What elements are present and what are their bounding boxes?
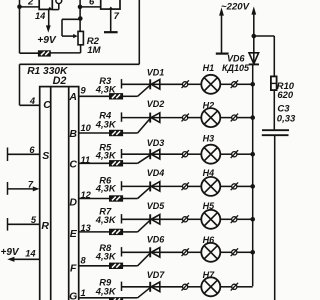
wire feedback from top right down to left rail xyxy=(20,0,140,105)
wire R10 to C3 xyxy=(273,90,275,129)
C input label xyxy=(43,99,51,111)
wire bus VD6 cathode down to lamps xyxy=(252,64,254,286)
node bus junction row D xyxy=(250,184,255,189)
node bus junction row B xyxy=(250,115,255,120)
lamp H5 xyxy=(201,210,220,229)
svg-text:+9V: +9V xyxy=(37,35,57,46)
svg-text:S: S xyxy=(42,150,49,162)
H2 label xyxy=(203,101,215,111)
wire diagonal R3 to VD1 xyxy=(138,85,150,96)
terminal tick row D xyxy=(121,181,123,190)
pin 7 label xyxy=(114,11,120,22)
svg-text:620: 620 xyxy=(277,89,293,100)
pin 14 label xyxy=(35,11,46,21)
R10 label xyxy=(277,80,295,91)
R6 value 4,3K xyxy=(95,182,117,193)
terminal tick row F xyxy=(121,247,123,256)
node junction at gate D1.1 input xyxy=(17,4,22,9)
pin 6 wire xyxy=(8,153,40,155)
output A label xyxy=(68,91,77,103)
svg-text:КД105: КД105 xyxy=(222,63,250,73)
output G label xyxy=(69,291,77,300)
VD1 label xyxy=(147,67,165,77)
svg-text:4,3K: 4,3K xyxy=(95,149,117,160)
wire C3 bottom lead xyxy=(274,136,276,300)
wire after R6 xyxy=(123,198,138,200)
wire lamp H7 to contact xyxy=(220,286,232,288)
wire R1 left lead xyxy=(20,52,39,54)
connector contact right row A xyxy=(231,80,238,88)
svg-text:7: 7 xyxy=(28,179,34,189)
diode VD2 xyxy=(150,113,160,123)
wire contact to lamp H5 xyxy=(188,218,202,220)
pin 5 label xyxy=(31,215,37,225)
svg-text:14: 14 xyxy=(35,11,46,21)
wire diagonal R5 to VD3 xyxy=(138,155,150,163)
R9 label xyxy=(99,277,112,288)
D2 designator label xyxy=(53,75,67,87)
C3 label xyxy=(277,104,290,115)
svg-text:G: G xyxy=(69,291,77,300)
pin 13 wire row E xyxy=(79,231,110,233)
connector contact left row A xyxy=(182,80,189,88)
wire contact to bus row E xyxy=(237,218,253,220)
pin 11 label row C xyxy=(81,155,91,165)
C3 value 0,33 xyxy=(277,114,296,125)
pin 7 arrow into gate xyxy=(109,7,113,32)
node junction to R2 wiper loop xyxy=(78,16,83,21)
resistor R8 xyxy=(110,263,123,268)
H4 label xyxy=(203,168,215,178)
common terminal bar mains xyxy=(216,52,229,54)
svg-text:5: 5 xyxy=(31,215,37,225)
node bus junction row A xyxy=(250,82,255,87)
node bus junction row C xyxy=(250,152,255,157)
+9V supply label left xyxy=(1,247,20,258)
~220V label xyxy=(221,2,251,13)
connector contact left row D xyxy=(182,182,189,190)
pin 8 wire row F xyxy=(79,265,110,267)
terminal tick row E xyxy=(121,214,123,223)
wire contact to bus row F xyxy=(237,251,253,253)
pin 1 wire row G xyxy=(79,297,110,299)
wire gate D1.1 input xyxy=(20,6,40,8)
svg-text:14: 14 xyxy=(25,248,36,258)
svg-text:VD6: VD6 xyxy=(147,234,166,244)
diode VD1 xyxy=(150,79,160,89)
svg-text:R: R xyxy=(41,220,49,232)
svg-text:10: 10 xyxy=(81,123,92,133)
pin 7 wire with arrow xyxy=(8,186,40,191)
pin 14 wire with +9V arrow xyxy=(7,257,39,262)
R7 label xyxy=(99,206,112,217)
H5 label xyxy=(203,201,215,211)
terminal circle output of gate U1a xyxy=(52,0,61,10)
R4 value 4,3K xyxy=(95,119,117,130)
R9 value 4,3K xyxy=(95,285,117,296)
svg-text:13: 13 xyxy=(81,223,92,233)
lamp H4 xyxy=(201,177,220,196)
svg-text:H1: H1 xyxy=(203,63,215,73)
svg-text:VD2: VD2 xyxy=(147,99,165,109)
output F label xyxy=(70,263,77,275)
resistor R2 (trimmer body) xyxy=(78,31,83,44)
svg-text:4,3K: 4,3K xyxy=(95,119,117,130)
wire middle vertical rail (gate output net) xyxy=(79,0,81,31)
wire lamp H2 to contact xyxy=(220,117,232,119)
wire terminal through VD3 to contact xyxy=(122,153,183,155)
R5 label xyxy=(99,142,112,153)
H3 label xyxy=(203,134,215,144)
VD6 type КД105 xyxy=(222,63,250,73)
svg-text:4,3K: 4,3K xyxy=(95,251,117,262)
svg-text:C: C xyxy=(69,159,77,171)
wire contact to bus row C xyxy=(237,153,253,155)
svg-text:VD4: VD4 xyxy=(147,168,165,178)
R2 label xyxy=(87,36,100,47)
pin 4 label xyxy=(29,96,36,106)
S input label xyxy=(42,150,49,162)
VD6 label xyxy=(227,54,246,64)
wire branch to R10 xyxy=(254,36,274,76)
node junction VD6 anode branch xyxy=(252,34,257,39)
capacitor C3 xyxy=(262,130,289,135)
pin 9 wire row A xyxy=(79,95,110,97)
connector contact left row E xyxy=(182,215,189,223)
svg-text:+9V: +9V xyxy=(1,247,20,258)
pin 10 label row B xyxy=(81,123,92,133)
svg-text:6: 6 xyxy=(89,0,95,7)
lamp H1 xyxy=(201,75,220,94)
terminal tick row B xyxy=(121,112,123,121)
svg-text:6: 6 xyxy=(29,145,35,155)
R6 label xyxy=(99,174,112,185)
resistor R4 xyxy=(110,130,123,135)
svg-text:H7: H7 xyxy=(203,270,215,280)
connector contact right row G xyxy=(231,283,238,291)
connector contact left row G xyxy=(182,283,189,291)
lamp H2 xyxy=(201,108,220,127)
connector contact right row F xyxy=(231,248,238,256)
wire after R7 xyxy=(123,231,138,233)
R10 value 620 xyxy=(277,89,293,100)
output E label xyxy=(70,228,78,240)
wire contact to bus row A xyxy=(237,83,253,85)
wire lamp H1 to contact xyxy=(220,83,232,85)
node bus junction row E xyxy=(250,217,255,222)
resistor R9 xyxy=(110,298,123,300)
pin 13 label row E xyxy=(81,223,92,233)
svg-text:2: 2 xyxy=(27,0,34,8)
output D label xyxy=(69,197,77,209)
wire lamp H5 to contact xyxy=(220,218,232,220)
svg-text:F: F xyxy=(70,263,77,275)
R8 value 4,3K xyxy=(95,251,117,262)
gate U1a box (cut off at top) xyxy=(39,0,52,9)
wire after R4 xyxy=(123,132,138,134)
VD4 label xyxy=(147,168,165,178)
resistor R1 xyxy=(38,51,50,56)
svg-text:4,3K: 4,3K xyxy=(95,285,117,296)
wire contact to lamp H6 xyxy=(188,251,202,253)
connector contact right row D xyxy=(231,182,238,190)
pin 12 label row D xyxy=(81,190,92,200)
pin 1 label row G xyxy=(81,288,86,298)
wire contact to lamp H7 xyxy=(188,286,202,288)
common terminal bar xyxy=(104,31,118,33)
pin 11 wire row C xyxy=(79,162,110,164)
+9V label xyxy=(37,35,57,46)
resistor R5 xyxy=(110,161,123,166)
wire diagonal R6 to VD4 xyxy=(138,187,150,198)
VD3 label xyxy=(147,138,165,148)
wire lamp H3 to contact xyxy=(220,153,232,155)
connector contact left row F xyxy=(182,248,189,256)
connector contact left row C xyxy=(182,150,189,158)
pin 6 label xyxy=(29,145,35,155)
svg-text:4,3K: 4,3K xyxy=(95,182,117,193)
wire R2 bottom lead xyxy=(50,45,80,53)
diode VD4 xyxy=(150,181,160,191)
svg-text:11: 11 xyxy=(81,155,91,165)
wire R2 wiper loop xyxy=(62,19,80,38)
svg-text:H4: H4 xyxy=(203,168,215,178)
diode VD6 xyxy=(150,247,160,257)
wire gate U1b input xyxy=(80,6,101,8)
svg-text:H5: H5 xyxy=(203,201,215,211)
wire after R9 xyxy=(123,297,138,299)
VD6 label xyxy=(147,234,166,244)
VD2 label xyxy=(147,99,165,109)
svg-text:B: B xyxy=(69,128,77,140)
svg-text:7: 7 xyxy=(114,11,120,22)
VD5 label xyxy=(147,201,166,211)
pin 8 label row F xyxy=(81,256,87,266)
terminal tick row A xyxy=(121,79,123,88)
wire terminal through VD6 to contact xyxy=(122,251,183,253)
svg-text:D2: D2 xyxy=(53,75,67,87)
pin 5 wire xyxy=(8,223,40,225)
wire diagonal R4 to VD2 xyxy=(138,119,150,133)
wire diagonal R9 to VD7 xyxy=(138,288,150,298)
pin 2 label xyxy=(27,0,34,8)
H7 label xyxy=(203,270,215,280)
wire contact to bus row D xyxy=(237,185,253,187)
connector contact right row C xyxy=(231,150,238,158)
H1 label xyxy=(203,63,215,73)
connector contact left row B xyxy=(182,114,189,122)
svg-text:D: D xyxy=(69,197,77,209)
svg-text:VD1: VD1 xyxy=(147,67,165,77)
pin 12 wire row D xyxy=(79,198,110,200)
wire terminal through VD1 to contact xyxy=(122,83,183,85)
wire lamp H4 to contact xyxy=(220,185,232,187)
resistor R6 xyxy=(110,196,123,201)
lamp H6 xyxy=(201,243,220,262)
wire after R5 xyxy=(123,162,138,164)
svg-text:H3: H3 xyxy=(203,134,215,144)
svg-text:VD6: VD6 xyxy=(227,54,246,64)
pin 14 arrow into gate xyxy=(48,7,52,27)
R input label xyxy=(41,220,49,232)
output C label xyxy=(69,159,77,171)
node junction to gate U1b input xyxy=(78,5,83,10)
wire terminal through VD5 to contact xyxy=(122,218,183,220)
diode VD7 xyxy=(150,282,160,292)
svg-text:1: 1 xyxy=(81,288,86,298)
wire contact to lamp H4 xyxy=(188,185,202,187)
wire after R8 xyxy=(123,265,138,267)
H6 label xyxy=(203,235,215,245)
svg-text:VD3: VD3 xyxy=(147,138,165,148)
wire left vertical rail from top to R1 xyxy=(19,0,21,53)
svg-text:VD5: VD5 xyxy=(147,201,166,211)
resistor R10 xyxy=(271,76,277,90)
wire diagonal R8 to VD6 xyxy=(138,253,150,265)
R8 label xyxy=(99,242,112,253)
pin 6 label xyxy=(89,0,95,7)
pin 7 label xyxy=(28,179,34,189)
svg-text:4,3K: 4,3K xyxy=(95,84,117,95)
output B label xyxy=(69,128,77,140)
terminal tick row G xyxy=(121,282,123,291)
pin 9 label row A xyxy=(81,85,87,95)
pin 10 wire row B xyxy=(79,132,110,134)
R4 label xyxy=(99,109,112,120)
svg-text:8: 8 xyxy=(81,256,87,266)
diode VD6 rectifier (pointing down) xyxy=(249,53,259,65)
svg-text:~220V: ~220V xyxy=(221,2,251,13)
pin 7 terminal tick xyxy=(7,182,9,195)
wire contact to bus row G xyxy=(237,286,253,288)
R1 value label 330K xyxy=(27,66,68,77)
svg-text:H6: H6 xyxy=(203,235,215,245)
R3 label xyxy=(99,75,112,86)
VD7 label xyxy=(147,270,166,280)
svg-text:A: A xyxy=(68,91,77,103)
lamp H7 xyxy=(201,277,220,296)
diode VD5 xyxy=(150,214,160,224)
wire diagonal R7 to VD5 xyxy=(138,220,150,232)
R2 value 1M xyxy=(87,45,101,56)
svg-text:4,3K: 4,3K xyxy=(95,214,117,225)
R3 value 4,3K xyxy=(95,84,117,95)
svg-text:4: 4 xyxy=(29,96,36,106)
pin 4 wire xyxy=(20,104,40,106)
svg-text:C: C xyxy=(43,99,51,111)
connector contact right row B xyxy=(231,114,238,122)
svg-text:H2: H2 xyxy=(203,101,215,111)
pin 5 terminal tick xyxy=(7,218,9,231)
wire terminal through VD7 to contact xyxy=(122,286,183,288)
resistor R7 xyxy=(110,229,123,234)
wire lamp H6 to contact xyxy=(220,251,232,253)
svg-text:0,33: 0,33 xyxy=(277,114,296,125)
connector contact right row E xyxy=(231,215,238,223)
wire contact to bus row B xyxy=(237,117,253,119)
svg-text:VD7: VD7 xyxy=(147,270,166,280)
~220V terminal arrow right xyxy=(251,6,256,64)
gate U1b box (cut off at top) xyxy=(101,0,120,9)
~220V terminal arrow left xyxy=(219,7,224,52)
terminal tick row C xyxy=(121,149,123,158)
svg-text:1M: 1M xyxy=(87,45,101,56)
wire contact to lamp H2 xyxy=(188,117,202,119)
lamp H3 xyxy=(201,145,220,164)
op-amp D2 counter IC box xyxy=(40,87,79,300)
resistor R3 xyxy=(110,94,123,99)
diode VD3 xyxy=(150,149,160,159)
svg-text:12: 12 xyxy=(81,190,92,200)
wire terminal through VD4 to contact xyxy=(122,185,183,187)
wire contact to lamp H3 xyxy=(188,153,202,155)
svg-text:9: 9 xyxy=(81,85,87,95)
wire terminal through VD2 to contact xyxy=(122,117,183,119)
node bus junction row F xyxy=(250,250,255,255)
R5 value 4,3K xyxy=(95,149,117,160)
+9V arrow (supply, pointing down) xyxy=(46,25,51,32)
pin 14 label left xyxy=(25,248,36,258)
wire after R3 xyxy=(123,95,138,97)
pin 6 terminal tick xyxy=(7,148,9,162)
svg-text:E: E xyxy=(70,228,78,240)
wire contact to lamp H1 xyxy=(188,83,202,85)
R7 value 4,3K xyxy=(95,214,117,225)
